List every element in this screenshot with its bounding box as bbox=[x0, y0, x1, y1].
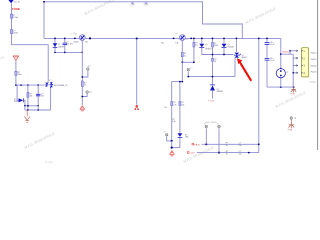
ground rail wire bbox=[267, 86, 294, 88]
svg-text:T.A.: T.A. bbox=[85, 41, 89, 44]
svg-text:10: 10 bbox=[195, 45, 197, 47]
inductor L1 bbox=[10, 30, 18, 35]
svg-text:10k: 10k bbox=[181, 104, 184, 106]
AC line input port bbox=[8, 0, 20, 4]
svg-text:20k: 20k bbox=[30, 96, 33, 98]
wire node 62 bbox=[182, 61, 194, 63]
top bus wire bbox=[44, 2, 242, 39]
svg-text:1N4937: 1N4937 bbox=[58, 46, 64, 48]
svg-text:X0202: X0202 bbox=[241, 57, 246, 59]
motor M1 bbox=[276, 69, 288, 78]
svg-text:JP?: JP? bbox=[88, 66, 91, 68]
wire left vertical bbox=[43, 2, 45, 39]
jumper J4 bbox=[290, 117, 297, 120]
connector pin labels bbox=[311, 51, 317, 73]
svg-text:P.A.Ch: P.A.Ch bbox=[311, 51, 317, 54]
red AC-N port bbox=[13, 56, 19, 61]
svg-text:AC_IN: AC_IN bbox=[14, 1, 20, 4]
svg-text:20: 20 bbox=[214, 61, 216, 63]
svg-text:47u: 47u bbox=[239, 145, 242, 147]
svg-text:13003: 13003 bbox=[73, 42, 78, 44]
svg-text:UF4007: UF4007 bbox=[205, 48, 211, 50]
jumper JP2 bbox=[81, 91, 91, 98]
svg-text:J?: J? bbox=[286, 72, 288, 74]
wire AC-N down bbox=[15, 61, 17, 86]
diode D3 bbox=[14, 85, 25, 106]
wire opto out bbox=[50, 88, 52, 110]
svg-text:10mH: 10mH bbox=[13, 33, 18, 35]
svg-text:P.A.Ch: P.A.Ch bbox=[311, 65, 317, 68]
svg-text:T.A.: T.A. bbox=[175, 42, 179, 45]
svg-text:J?: J? bbox=[190, 68, 192, 70]
svg-text:200k: 200k bbox=[214, 45, 218, 47]
chassis ground 1 bbox=[291, 87, 296, 92]
node top bus bbox=[43, 1, 45, 3]
svg-text:P.A.Ch: P.A.Ch bbox=[311, 58, 317, 61]
svg-text:176.47.186: 176.47.186 bbox=[45, 162, 53, 164]
jumper J5 bbox=[204, 123, 207, 144]
svg-text:J?: J? bbox=[217, 123, 219, 125]
snubber top rail wire bbox=[16, 84, 45, 86]
svg-text:Q?: Q? bbox=[74, 34, 77, 36]
svg-text:ZMM18: ZMM18 bbox=[217, 91, 223, 93]
net flag primary 2 bbox=[134, 105, 139, 110]
transistor Q2 switcher bbox=[173, 33, 192, 44]
diode D1 bbox=[53, 38, 65, 53]
svg-text:560k: 560k bbox=[18, 74, 22, 76]
fuse F1 bbox=[10, 14, 18, 19]
svg-text:3.15A: 3.15A bbox=[13, 16, 18, 19]
svg-text:+12V: +12V bbox=[190, 153, 196, 155]
chassis ground 2 bbox=[289, 120, 295, 129]
svg-text:4n7: 4n7 bbox=[41, 96, 44, 98]
ground arrow AC return bbox=[24, 110, 30, 122]
resistor R12 bbox=[212, 58, 217, 84]
jumper JP1 bbox=[81, 66, 90, 78]
rail RTN wire bbox=[197, 152, 259, 154]
svg-text:0.1uF: 0.1uF bbox=[144, 4, 148, 6]
svg-text:POW.: POW. bbox=[288, 129, 293, 131]
svg-text:Output: Output bbox=[310, 81, 316, 84]
wire node 54 bbox=[202, 54, 234, 56]
rail labels bbox=[226, 143, 242, 156]
net flag secondary RTN bbox=[171, 147, 173, 149]
capacitor C6 bbox=[265, 58, 276, 87]
svg-text:P.O.W.: P.O.W. bbox=[208, 100, 215, 102]
transistor Q1 bbox=[73, 34, 91, 44]
svg-text:U?: U? bbox=[49, 80, 51, 82]
svg-text:T.A.: T.A. bbox=[161, 42, 165, 45]
wire Q2 down bbox=[181, 40, 183, 62]
thyristor Q3 bbox=[233, 38, 246, 77]
jumper J2 bbox=[164, 132, 173, 142]
resistor R6 bbox=[181, 52, 186, 57]
LED D6 bbox=[172, 133, 189, 147]
+12V rail wire bbox=[202, 143, 259, 145]
watermark bbox=[0, 0, 307, 164]
wire lower node bbox=[55, 51, 82, 53]
wire node 76 bbox=[188, 76, 235, 78]
svg-text:MOC3063M_D?: MOC3063M_D? bbox=[54, 85, 68, 87]
red annotation arrow bbox=[237, 58, 251, 81]
resistor R7 bbox=[193, 38, 198, 63]
svg-text:1k: 1k bbox=[226, 153, 228, 155]
svg-text:CT.L: CT.L bbox=[185, 39, 188, 41]
capacitor C3 bbox=[36, 85, 44, 106]
connector J1 bbox=[301, 48, 308, 77]
svg-text:1k: 1k bbox=[84, 85, 86, 87]
svg-text:FUSE: FUSE bbox=[12, 7, 20, 11]
resistor R2 bbox=[15, 71, 22, 76]
sheet border bbox=[317, 0, 319, 150]
DC bus wire bbox=[44, 37, 281, 39]
resistor R11 bbox=[212, 38, 218, 59]
svg-text:1N4148: 1N4148 bbox=[227, 47, 233, 49]
capacitor CY1 bbox=[130, 2, 134, 7]
resistor R9 bbox=[179, 102, 184, 133]
svg-text:1.3k: 1.3k bbox=[172, 121, 175, 123]
wire AC input down bbox=[12, 3, 49, 82]
resistor R4 bbox=[81, 81, 86, 87]
svg-text:176.47.186.98: 176.47.186.98 bbox=[205, 122, 217, 124]
svg-text:(T.A.N.): (T.A.N.) bbox=[282, 51, 289, 54]
capacitor C2 2n2 bbox=[63, 38, 74, 53]
svg-text:POW.: POW. bbox=[290, 94, 295, 96]
svg-text:0.1uF: 0.1uF bbox=[130, 4, 134, 6]
resistor R3 bbox=[27, 85, 33, 110]
jumper J3 bbox=[187, 68, 192, 76]
wire fb node bbox=[172, 82, 183, 102]
wire snubber bottom B bbox=[25, 106, 51, 110]
svg-text:U?: U? bbox=[175, 33, 177, 35]
wire right drop bbox=[280, 38, 282, 87]
capacitor CY2 bbox=[144, 2, 148, 7]
wire down to fb bbox=[181, 62, 183, 81]
svg-text:P.A.Ch: P.A.Ch bbox=[311, 71, 317, 74]
net flag primary RTN 1 bbox=[80, 106, 85, 112]
svg-text:P6KE: P6KE bbox=[14, 101, 19, 103]
svg-text:JP?: JP? bbox=[89, 92, 92, 94]
svg-text:1k: 1k bbox=[226, 145, 228, 147]
svg-text:D?: D? bbox=[205, 44, 207, 46]
diode D5 bbox=[222, 38, 234, 55]
jumper J6 bbox=[217, 123, 220, 152]
connector wires bbox=[281, 51, 298, 87]
wire vcc drop bbox=[258, 38, 260, 152]
zener D7 bbox=[210, 85, 223, 99]
wire Q1 emitter bbox=[81, 40, 83, 105]
svg-text:J?: J? bbox=[164, 132, 166, 134]
svg-text:1.2k: 1.2k bbox=[173, 104, 176, 106]
capacitor C5 bbox=[265, 38, 276, 58]
resistor R8 bbox=[171, 102, 177, 141]
wire snubber bottom A bbox=[25, 105, 38, 107]
svg-text:F.A.N: F.A.N bbox=[194, 143, 200, 146]
svg-text:47u: 47u bbox=[239, 153, 242, 155]
svg-text:5.1: 5.1 bbox=[184, 55, 187, 57]
svg-text:26k: 26k bbox=[164, 107, 167, 109]
connector pin arrows bbox=[296, 50, 298, 74]
svg-text:2n2 1kV: 2n2 1kV bbox=[66, 44, 73, 46]
diode D4 bbox=[199, 38, 211, 55]
opto-triac U2 bbox=[45, 80, 68, 88]
wire drain line bbox=[136, 38, 138, 104]
